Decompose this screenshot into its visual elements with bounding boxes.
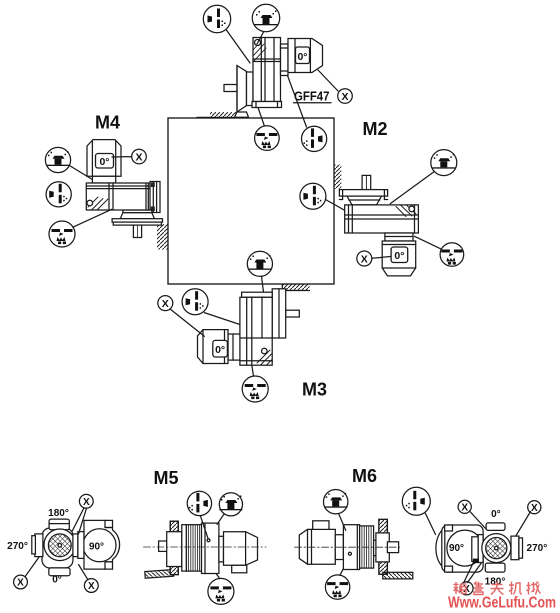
M6e leader plug (425, 513, 436, 535)
svg-text:M6: M6 (352, 466, 377, 486)
M4 drain symbol circle (49, 221, 75, 247)
M3 leader X to motor (170, 309, 204, 336)
M5s vent symbol circle (219, 493, 242, 516)
M3 gearbox body (240, 297, 272, 365)
M4 wall hatch (157, 224, 168, 250)
vent symbol circle D (inside box) (247, 251, 272, 276)
M4 vent symbol circle (45, 147, 70, 172)
M6 end view (bottom right) (402, 487, 547, 595)
M6e dark tab (473, 559, 479, 564)
M2 output shaft (362, 175, 371, 189)
M3 motor adapter (228, 334, 240, 360)
M1 leader to drain circle A (258, 108, 265, 127)
M5s plug symbol circle (187, 491, 211, 515)
M2 motor adapter (385, 233, 413, 241)
M6e X bottom (460, 582, 473, 595)
M5s brake section (202, 523, 219, 573)
M4 output step plate (123, 210, 152, 213)
M5e X top (79, 494, 93, 508)
svg-text:GFF47: GFF47 (294, 89, 330, 104)
M6e motor dome arc (436, 527, 446, 570)
M5 end view (bottom left) (7, 494, 119, 592)
M5s motor (224, 532, 258, 566)
M5s gear plate (182, 525, 187, 571)
M4 wall flange (150, 182, 160, 213)
M1 leader to X (318, 70, 338, 91)
M5e adapter (73, 534, 78, 557)
M1 vent symbol circle (252, 4, 279, 31)
svg-text:0°: 0° (215, 344, 225, 356)
M6 side view (295, 490, 413, 600)
M3 plug symbol circle (182, 289, 208, 315)
svg-text:180°: 180° (485, 577, 506, 588)
M2 gearbox body (345, 205, 419, 233)
M3 output shaft (286, 310, 300, 317)
M6e leader X top-left (470, 511, 487, 529)
M2 gearbox right end line (414, 205, 416, 233)
svg-text:M3: M3 (302, 380, 327, 400)
M4 output bell (120, 213, 154, 219)
M6s spacer (374, 540, 379, 555)
M5e X bottom-right (84, 579, 98, 593)
M2 drain symbol circle (440, 243, 464, 267)
M5s leader plug (200, 516, 208, 539)
M1 motor (288, 39, 323, 73)
M5e gearbox outline (84, 520, 120, 569)
svg-text:X: X (135, 152, 142, 164)
svg-text:0°: 0° (297, 51, 307, 63)
svg-text:X: X (461, 503, 468, 514)
M2 assembly (right) (335, 119, 464, 276)
M5e left tab 270 (35, 534, 43, 557)
M4 leader vent to motor (70, 166, 92, 179)
M3 ceiling hatch (282, 285, 309, 291)
svg-text:90°: 90° (449, 543, 464, 554)
M1 leader to plug circle (226, 30, 250, 64)
M5s leader vent (217, 514, 224, 525)
M6s leader vent (339, 514, 346, 531)
M6e motor body (442, 525, 483, 572)
svg-text:X: X (17, 578, 24, 589)
M1 assembly (top, GFF47) (197, 4, 352, 127)
M5e X leader bottom-right (79, 565, 89, 580)
M2 gearbox eye bolt (409, 206, 415, 212)
M3 leader drain to gearbox (252, 365, 254, 376)
M5s leader drain (216, 574, 220, 579)
M6e top tab 0 (486, 523, 505, 531)
M4 plug symbol circle (46, 182, 71, 207)
M5e gearbox circle (83, 529, 116, 562)
M6e X top-right (528, 501, 541, 514)
svg-text:X: X (162, 298, 169, 310)
M4 gearbox rib hatching (88, 197, 108, 210)
M6e X top-left (458, 500, 471, 513)
M2 wall hatch (335, 165, 342, 189)
M3 0deg box (213, 340, 228, 357)
M5s drain symbol circle (208, 578, 234, 604)
M6e body corner tabs (445, 525, 453, 531)
M1 motor adapter (281, 44, 289, 76)
M5e fan grille (48, 534, 71, 557)
char ge (454, 582, 467, 594)
M3 X circle (158, 296, 173, 311)
M3 drain symbol circle (242, 376, 268, 402)
M2 X circle (357, 251, 372, 266)
M2 leader drain to adapter (415, 236, 442, 249)
char lu (474, 582, 484, 595)
svg-text:X: X (341, 91, 348, 103)
M6e leaders X bottom (464, 561, 481, 582)
M5 side view (144, 491, 267, 604)
char xie (527, 582, 541, 595)
M3 gearbox top foot (242, 292, 273, 297)
M1 plug symbol circle (203, 5, 230, 32)
svg-text:M5: M5 (153, 468, 178, 488)
M5s terminal box (232, 565, 247, 573)
plug symbol circle C (inside box) (300, 183, 326, 209)
M3 gearbox eye bolt (262, 348, 268, 354)
M3 motor (198, 330, 229, 364)
watermark chinese characters (vector strokes) (454, 582, 541, 595)
M5s flange (170, 521, 178, 574)
svg-text:270°: 270° (527, 543, 548, 554)
M6s motor (299, 529, 335, 564)
M4 output shaft (133, 225, 141, 237)
M1 0deg box (296, 47, 310, 64)
drain symbol circle A (inside box) (255, 126, 280, 151)
svg-text:X: X (88, 581, 95, 592)
svg-text:180°: 180° (48, 508, 69, 519)
M5e fan ring (44, 529, 76, 561)
M4 gearbox right end lines (145, 183, 147, 210)
M4 X circle (132, 149, 147, 164)
M1 gearbox body (253, 38, 281, 102)
M4 gearbox body (86, 183, 157, 210)
M1 X circle (338, 89, 353, 104)
M6s terminal box (313, 521, 329, 530)
M2 vent symbol circle (431, 150, 457, 176)
M1 gearbox rib hatching (253, 41, 266, 62)
M6s wall hatch bar (383, 572, 413, 579)
svg-text:0°: 0° (491, 509, 501, 520)
M2 0deg box (391, 247, 408, 263)
M1 flange adapter plate (247, 72, 254, 106)
M6e leader X top-right (516, 512, 531, 536)
M4 motor (87, 140, 121, 177)
M4 leader to X (112, 156, 132, 158)
svg-text:M4: M4 (95, 113, 120, 133)
svg-text:270°: 270° (7, 541, 28, 552)
M4 output flange plate (112, 219, 162, 222)
M6s drain symbol circle (325, 575, 349, 599)
M6s vent symbol circle (324, 490, 348, 514)
svg-text:Www.GeLufu.Com: Www.GeLufu.Com (448, 595, 556, 612)
central mounting box (168, 118, 334, 284)
M1 output shaft (224, 85, 238, 92)
M6e fan grille (486, 538, 507, 559)
M1 gearbox foot (252, 102, 282, 108)
M2 flange cone (347, 196, 382, 205)
M5e X leader bottom-left (25, 557, 39, 577)
M5s wall hatch bar (145, 570, 174, 579)
svg-text:90°: 90° (89, 542, 104, 553)
M3 gearbox rib hatching (257, 350, 272, 365)
svg-text:X: X (83, 497, 90, 508)
M6e motor circle (447, 530, 483, 566)
M3 output flange (272, 289, 286, 338)
M2 leader X to 0deg box (372, 257, 391, 259)
M6e plug symbol circle (402, 487, 430, 515)
M3 assembly (bottom) (158, 285, 327, 403)
M5e motor body (42, 528, 73, 568)
svg-text:0°: 0° (99, 156, 109, 168)
M6e fan ring (482, 534, 511, 563)
M3 gearbox bottom foot (240, 360, 272, 362)
M1 floor line (197, 117, 247, 119)
M5s center line (144, 546, 267, 548)
leader circle D to M3 (262, 276, 264, 292)
M1 leader to plug circle B (288, 76, 307, 128)
M6s ribbed drum (360, 526, 374, 568)
svg-text:X: X (531, 503, 538, 514)
M5e X leaders top (72, 508, 87, 534)
M6e bottom tab 180 (485, 563, 505, 572)
M3 leader plug to gearbox (204, 313, 240, 325)
M1 output flange (237, 66, 247, 113)
M2 gearbox rib hatching (396, 206, 416, 217)
M5s spacer (219, 536, 224, 562)
M5e bottom tab 0 (49, 568, 70, 576)
M4 leader drain to gearbox (73, 209, 112, 227)
svg-text:0°: 0° (394, 250, 404, 262)
M5s output shaft (159, 541, 176, 551)
svg-text:M2: M2 (362, 119, 387, 139)
M4 gearbox eye bolt (87, 200, 93, 206)
M1 leader to vent circle (257, 32, 264, 44)
M2 leader vent to gearbox (390, 171, 434, 203)
leader circle C to M2 (326, 200, 345, 211)
svg-text:0°: 0° (52, 575, 62, 586)
M4 0deg box (96, 154, 114, 169)
M5e X bottom-left (14, 575, 28, 589)
M5e top tab 180 (49, 519, 69, 530)
M2 motor (382, 241, 416, 276)
M6s center line (295, 546, 400, 548)
M6s adapter (335, 535, 343, 560)
M4 motor base (92, 176, 115, 183)
char ji (509, 582, 522, 595)
M6e adapter (472, 537, 478, 562)
char fu (491, 582, 504, 595)
svg-text:X: X (361, 254, 368, 266)
M5s ribbed drum (186, 525, 201, 571)
M4 assembly (left) (45, 113, 168, 250)
M6s gear plate (343, 525, 359, 570)
M6s flange (379, 519, 388, 574)
M1 flange foot (235, 112, 249, 117)
M6e right tab 270 (511, 536, 519, 560)
plug symbol circle B (inside box) (302, 126, 327, 151)
M6s leader drain (340, 569, 344, 576)
M1 floor hatch (210, 112, 237, 118)
M6s output shaft (387, 542, 398, 553)
M1 gearbox eye bolt (255, 40, 261, 46)
M2 flange plate (339, 190, 387, 197)
